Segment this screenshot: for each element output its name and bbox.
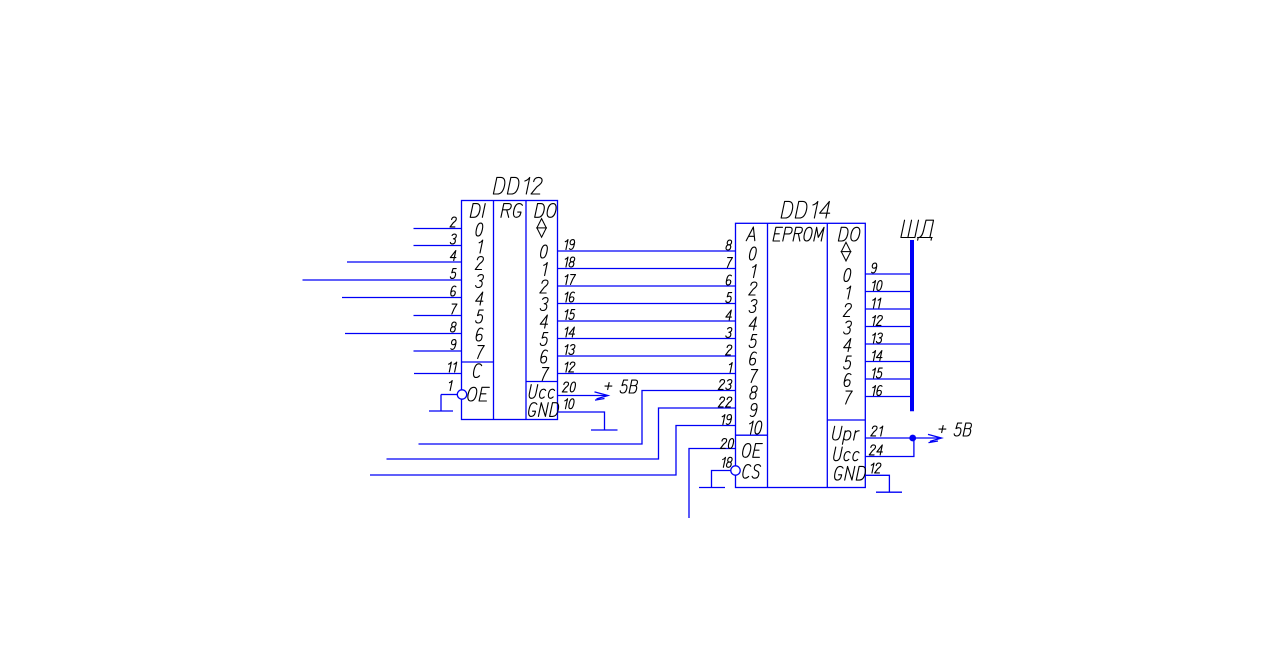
- wire DD12 Ucc (pin 20) to +5V: [558, 395, 607, 397]
- DD12 column divider RG|DO: [525, 201, 527, 420]
- wire DD14 Ucc (pin 24) tied to +5V node: [865, 438, 914, 457]
- DD14 pin number 19: [721, 415, 733, 425]
- DD12 pin number 11: [447, 362, 457, 372]
- DD14 pin number 6: [726, 275, 733, 285]
- DD14 DO bit label 7: [843, 391, 852, 404]
- DD14 A bit label 7: [749, 370, 758, 383]
- DD12 DO tri-state diamond symbol: [537, 219, 546, 238]
- wire DD14 A8 (pin 23) with bend: [419, 391, 736, 445]
- DD12 pin number 3: [450, 234, 457, 244]
- wire DD12 DO1 to DD14 A1: [558, 268, 736, 270]
- wire DD12 DI3 input (pin 5): [303, 279, 462, 281]
- wire DD12 C input (pin 11): [414, 373, 462, 375]
- DD12 DI bit label 0: [475, 223, 484, 236]
- DD14 A bit label 2: [749, 282, 758, 295]
- DD14 label OE: [742, 444, 763, 458]
- DD12 pin number 1: [448, 381, 452, 391]
- ground at DD14 GND pin 12: [876, 491, 902, 493]
- DD12 label C: [472, 364, 482, 378]
- wire DD12 DO2 to DD14 A2: [558, 285, 736, 287]
- DD14 pin number 21: [871, 426, 883, 436]
- DD14 pin number 22: [718, 397, 732, 407]
- wire junction to arrow: [913, 437, 939, 439]
- DD12 DI bit label 6: [475, 328, 484, 341]
- DD12 DI bit label 7: [475, 346, 484, 359]
- DD12 pin number 7: [450, 304, 457, 314]
- wire DD12 DO7 to DD14 A7: [558, 373, 736, 375]
- DD14 DO bit label 6: [843, 374, 852, 387]
- DD12 pin number 2: [450, 217, 457, 227]
- DD14 DO bit label 2: [843, 304, 852, 317]
- DD14 pin number 20: [720, 439, 734, 449]
- DD14 A bit label 6: [749, 352, 758, 365]
- DD12 pin number 17: [564, 275, 576, 285]
- DD14 pin number 12: [870, 463, 882, 473]
- DD14 A bit label 1: [751, 265, 757, 278]
- DD14 pin number 23: [718, 380, 732, 390]
- DD12 pin number 9: [450, 340, 457, 350]
- IC DD14 EPROM body: [736, 223, 866, 487]
- DD12 label GND: [528, 403, 560, 417]
- DD14 A bit label 10: [748, 421, 763, 434]
- DD14 A bit label 5: [749, 335, 758, 348]
- DD14 label EPROM: [773, 227, 824, 241]
- DD12 DI bit label 5: [475, 310, 484, 323]
- DD12 DO bit label 5: [540, 333, 549, 346]
- DD14 A bit label 0: [749, 247, 758, 260]
- wire DD14 DO4 to data bus (pin 13): [865, 343, 910, 345]
- wire DD14 DO2 to data bus (pin 11): [865, 308, 910, 310]
- DD14 pin number 18: [721, 457, 733, 467]
- wire DD14 DO3 to data bus (pin 12): [865, 326, 910, 328]
- DD14 DO bit label 3: [843, 321, 852, 334]
- wire DD14 Upr (pin 21) to +5V: [865, 437, 912, 439]
- DD12 pin number 4: [450, 251, 458, 261]
- IC DD12 register body: [462, 201, 558, 420]
- DD12 pin number 18: [564, 257, 576, 267]
- DD14 pin number 7: [726, 258, 733, 268]
- ground at DD14 CS input: [699, 487, 725, 489]
- DD12 pin number 13: [564, 345, 576, 355]
- wire DD14 DO6 to data bus (pin 15): [865, 378, 910, 380]
- DD14 label CS: [742, 465, 761, 479]
- DD14 pin number 10: [871, 281, 883, 291]
- DD12 pin number 20: [562, 382, 576, 392]
- wire DD12 DI0 input (pin 2): [414, 228, 462, 230]
- wire DD14 GND (pin 12): [865, 475, 889, 492]
- DD12 pin number 16: [564, 292, 576, 302]
- DD14 label DO: [838, 227, 861, 241]
- DD14 A bit label 9: [749, 404, 758, 417]
- wire DD14 DO1 to data bus (pin 10): [865, 291, 910, 293]
- DD12 label OE: [467, 387, 490, 401]
- DD14 pin number 4: [725, 310, 733, 320]
- +5V arrow at DD12 Ucc: [595, 392, 609, 400]
- junction dot +5V node: [909, 435, 916, 442]
- DD14 left column divider above OE section: [736, 434, 768, 436]
- DD14 A bit label 3: [749, 300, 758, 313]
- wire DD14 DO7 to data bus (pin 16): [865, 396, 910, 398]
- wire DD12 DI1 input (pin 3): [414, 245, 462, 247]
- DD14 label Ucc: [833, 447, 859, 461]
- DD14 pin number 9: [871, 263, 878, 273]
- ground at DD12 OE input: [440, 395, 442, 412]
- DD12 DI bit label 2: [475, 257, 484, 270]
- DD12 DI bit label 3: [475, 275, 484, 288]
- DD12 label RG: [501, 204, 523, 218]
- wire DD12 DO5 to DD14 A5: [558, 338, 736, 340]
- DD12 pin number 10: [563, 399, 575, 409]
- DD12 left column divider above C section: [462, 361, 494, 363]
- DD12 DO bit label 4: [539, 315, 549, 328]
- DD14 pin number 1: [728, 363, 732, 373]
- DD14 label Upr: [832, 426, 859, 444]
- DD12 label DO: [535, 204, 558, 218]
- DD12 DI bit label 4: [475, 292, 485, 305]
- data bus ShD thick line: [910, 240, 914, 411]
- DD14 DO bit label 0: [843, 269, 852, 282]
- DD14 pin number 12: [871, 316, 883, 326]
- DD12 OE inversion circle: [457, 390, 466, 399]
- DD12 DO bit label 1: [542, 263, 548, 276]
- IC DD14 designator label: [781, 201, 832, 218]
- DD12 DO bit label 6: [540, 350, 549, 363]
- wire DD14 DO0 to data bus (pin 9): [865, 273, 910, 275]
- DD12 pin number 15: [564, 310, 576, 320]
- IC DD12 designator label: [493, 177, 543, 194]
- DD12 DO bit label 3: [540, 298, 549, 311]
- net label +5V (DD14): [938, 423, 972, 436]
- DD12 pin number 19: [564, 240, 576, 250]
- DD14 pin number 24: [869, 445, 884, 455]
- DD14 CS inversion circle: [731, 466, 740, 475]
- wire DD12 GND (pin 10): [558, 412, 605, 430]
- wire DD12 DI7 input (pin 9): [414, 350, 462, 352]
- ground at DD12 GND pin 10: [591, 429, 618, 431]
- DD14 label A: [746, 227, 757, 241]
- wire DD12 DO3 to DD14 A3: [558, 303, 736, 305]
- wire DD12 DO4 to DD14 A4: [558, 320, 736, 322]
- DD14 pin number 16: [871, 386, 883, 396]
- wire DD14 DO5 to data bus (pin 14): [865, 361, 910, 363]
- wire DD12 DI5 input (pin 7): [414, 315, 462, 317]
- wire DD12 DO6 to DD14 A6: [558, 355, 736, 357]
- DD14 pin number 3: [726, 328, 733, 338]
- DD14 pin number 5: [726, 293, 733, 303]
- DD14 pin number 11: [871, 298, 881, 308]
- net label +5V (DD12): [604, 380, 638, 393]
- wire DD14 A10 (pin 19) with bend: [370, 426, 736, 476]
- DD14 pin number 13: [871, 333, 883, 343]
- bus label ShD: [901, 220, 936, 240]
- DD12 DO bit label 7: [540, 368, 549, 381]
- DD14 A bit label 4: [748, 317, 758, 330]
- DD14 pin number 2: [726, 345, 733, 355]
- DD12 pin number 5: [450, 269, 457, 279]
- DD14 A bit label 8: [749, 386, 758, 399]
- DD12 pin number 12: [564, 362, 576, 372]
- wire DD14 CS (pin 18) to ground: [712, 471, 731, 488]
- DD14 pin number 15: [871, 368, 883, 378]
- DD12 column divider DI|RG: [493, 201, 495, 420]
- DD12 label Ucc: [528, 385, 554, 399]
- wire DD12 DI2 input (pin 4): [347, 261, 462, 263]
- DD14 column divider EPROM|DO: [826, 223, 828, 487]
- wire DD14 A9 (pin 22) with bend: [387, 408, 736, 459]
- DD12 pin number 14: [564, 327, 576, 337]
- DD14 DO bit label 4: [843, 339, 853, 352]
- DD12 pin number 8: [450, 322, 457, 332]
- wire DD12 DI6 input (pin 8): [345, 333, 462, 335]
- DD12 DI bit label 1: [477, 240, 483, 253]
- wire DD12 DO0 to DD14 A0: [558, 250, 736, 252]
- DD14 DO tri-state diamond symbol: [841, 242, 850, 261]
- DD12 DO column divider above Ucc section: [526, 381, 558, 383]
- DD14 pin number 8: [726, 240, 733, 250]
- +5V arrow at DD14 Upr: [928, 434, 942, 442]
- DD14 DO bit label 5: [843, 356, 852, 369]
- wire DD12 DI4 input (pin 6): [342, 297, 462, 299]
- DD14 column divider A|EPROM: [767, 223, 769, 487]
- DD14 label GND: [834, 466, 867, 480]
- DD14 right column divider above Upr section: [827, 419, 865, 421]
- wire DD12 OE input (pin 1): [441, 394, 457, 396]
- DD12 DO bit label 2: [540, 280, 549, 293]
- DD14 DO bit label 1: [845, 286, 851, 299]
- DD14 pin number 14: [871, 351, 883, 361]
- DD12 label DI: [470, 204, 485, 218]
- DD12 DO bit label 0: [540, 245, 549, 258]
- DD12 pin number 6: [450, 286, 457, 296]
- wire DD14 OE (pin 20) with bend down: [689, 449, 736, 519]
